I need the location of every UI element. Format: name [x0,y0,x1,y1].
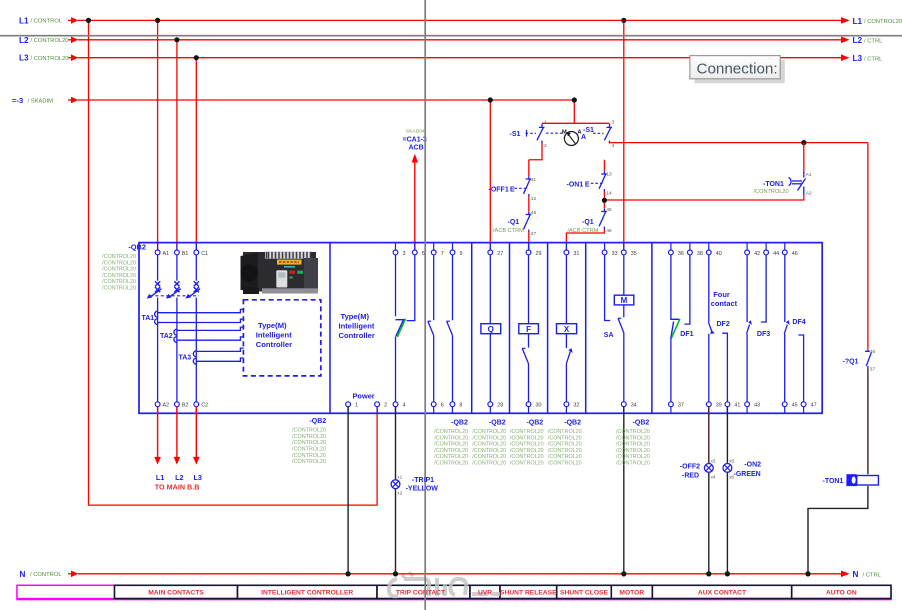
svg-text:MAIN CONTACTS: MAIN CONTACTS [148,590,204,597]
svg-text:C2: C2 [201,403,208,409]
svg-text:A1: A1 [163,251,170,257]
contact -Q1 left pins 46-47 [524,212,532,232]
wire S1 A-side output to right branch [610,142,868,145]
svg-text:/ CTRL: / CTRL [864,56,883,62]
svg-text:-GREEN: -GREEN [734,471,761,478]
svg-text:/ CONTROL: / CONTROL [31,19,63,25]
svg-text:INTELLIGENT CONTROLLER: INTELLIGENT CONTROLLER [261,590,353,597]
svg-text:Type(M): Type(M) [258,321,287,330]
lamp -ON2 -GREEN [723,464,732,473]
svg-text:-QB2: -QB2 [451,419,468,426]
svg-text:/ CTRL: / CTRL [863,572,882,578]
svg-text:SA: SA [604,332,614,339]
wire Q1 left to terminal 29 [528,232,530,250]
svg-text:45: 45 [792,403,798,409]
svg-text:47: 47 [531,231,537,237]
svg-text:/ACB CTRM: /ACB CTRM [493,228,524,234]
svg-text:Type(M): Type(M) [341,312,370,321]
svg-text:/CONTROL20: /CONTROL20 [616,454,650,460]
svg-text:Four: Four [713,290,730,299]
svg-text:DF4: DF4 [792,319,805,326]
svg-text:-QB2: -QB2 [564,419,581,426]
svg-text:/CONTROL20: /CONTROL20 [434,435,468,441]
svg-text:-?Q1: -?Q1 [843,359,859,366]
bus N / CONTROL [20,570,882,579]
terminal numbers bottom row [163,403,817,409]
svg-text:37: 37 [870,367,876,373]
svg-text:/CONTROL20: /CONTROL20 [292,428,326,434]
svg-text:/CONTROL20: /CONTROL20 [548,435,582,441]
node junction L1 x88.5 [86,18,91,23]
switch -S1 contact M-side pins 1-2 [537,124,545,144]
wire ON1 to Q1 right with junction [603,192,605,209]
svg-text:/CONTROL20: /CONTROL20 [434,454,468,460]
wire terminal 39 to OFF2 lamp and N [708,407,710,464]
wire terminal 41 to ON2 lamp and N [726,407,728,464]
svg-text:/CONTROL20: /CONTROL20 [434,429,468,435]
svg-text:13: 13 [606,172,612,178]
svg-text:36: 36 [678,251,684,257]
svg-text:36: 36 [870,349,876,355]
strip labels [148,590,857,597]
svg-text:/CONTROL20: /CONTROL20 [548,429,582,435]
svg-text:=CA1-3: =CA1-3 [403,137,427,144]
svg-text:/CONTROL20: /CONTROL20 [616,429,650,435]
aux contact DF1 with green state [670,255,672,319]
svg-text:/CONTROL20: /CONTROL20 [548,461,582,467]
svg-text:/CONTROL20: /CONTROL20 [434,461,468,467]
svg-text:42: 42 [754,251,760,257]
svg-text:/ CONTROL: / CONTROL [30,572,62,578]
svg-text:MOTOR: MOTOR [619,590,644,597]
svg-text:/CONTROL20: /CONTROL20 [472,461,506,467]
wire SKADIM drop to terminal 27 [489,100,491,250]
controller lead 5 with hook [407,255,415,321]
lamp -TRIP1 -YELLOW [391,480,400,489]
svg-text:-ON1: -ON1 [567,181,584,188]
CAD crosshair horizontal [0,35,902,37]
svg-text:L1: L1 [156,473,164,482]
svg-text:30: 30 [536,403,542,409]
svg-text:/CONTROL20: /CONTROL20 [472,435,506,441]
timer contact -TON1 delay symbol [846,474,856,486]
svg-text:/ CONTROL20: / CONTROL20 [31,56,69,62]
svg-text:28: 28 [497,403,503,409]
svg-text:7: 7 [441,251,444,257]
coil Q leads [489,255,491,324]
svg-text:/ SKADIM: / SKADIM [28,98,54,104]
contact below X with arrow [566,352,570,364]
svg-text:1: 1 [544,120,547,126]
svg-text:A1: A1 [806,172,812,178]
svg-text:-QB2: -QB2 [128,243,146,252]
wire arrows A2 B2 C2 to main busbar [158,407,197,458]
svg-text:/CONTROL20: /CONTROL20 [548,448,582,454]
svg-text:43: 43 [754,403,760,409]
svg-text:-Q1: -Q1 [508,219,520,226]
svg-text:34: 34 [631,403,637,409]
svg-text:1: 1 [355,403,358,409]
aux lead 41 with hook [722,333,727,402]
pushbutton -ON1 contact pins 13-14 [599,171,607,191]
svg-text:9: 9 [460,251,463,257]
svg-text:DF2: DF2 [717,321,730,328]
svg-text:Q: Q [488,325,494,334]
svg-text:31: 31 [573,251,579,257]
svg-text:/CONTROL20: /CONTROL20 [292,434,326,440]
wire L1 drop to terminal 35 [623,20,625,250]
svg-text:41: 41 [734,403,740,409]
svg-text:/CONTROL20: /CONTROL20 [510,448,544,454]
current transformer TA1 [155,311,158,324]
coil M box [614,295,634,305]
svg-text:/CONTROL20: /CONTROL20 [472,442,506,448]
selector lead SA 33 [605,255,611,321]
svg-text:L2: L2 [853,36,863,45]
node junction TON1 feed [801,140,806,145]
svg-text:contact: contact [711,299,738,308]
svg-text:DF1: DF1 [680,331,693,338]
svg-text:-OFF2: -OFF2 [680,464,700,471]
breaker linkage dashes and arrows [150,295,199,297]
wire red arrow to ACB reference at terminal 5 [414,162,416,250]
svg-text:-TRIP1: -TRIP1 [412,477,434,484]
bus L3 / CONTROL20 [19,54,883,63]
svg-text:/ CONTROL20: / CONTROL20 [864,19,902,25]
ACB product photo (simplified) [241,252,319,295]
svg-text:=-3: =-3 [12,96,23,105]
svg-text:/CONTROL20: /CONTROL20 [102,260,136,266]
svg-text:40: 40 [716,251,722,257]
svg-text:Intelligent: Intelligent [339,322,375,331]
aux contact DF2 [708,255,710,323]
wire L3 drop to C1 [195,58,197,250]
svg-text:39: 39 [716,403,722,409]
terminal stubs bottom [158,407,804,414]
coil Q box [481,324,501,334]
bus =-3 / SKADIM [12,96,574,105]
svg-text:-S1: -S1 [583,127,594,134]
svg-text:/CONTROL20: /CONTROL20 [754,189,789,195]
svg-text:TA2: TA2 [160,333,173,340]
svg-text:ACB: ACB [409,145,424,152]
wire L1 drop to A1 [157,20,159,250]
svg-text:A: A [581,134,586,141]
svg-text:N: N [853,570,859,579]
svg-text:L1: L1 [853,17,863,26]
wire OFF1 to Q1 [528,197,530,212]
svg-text:C1: C1 [201,251,208,257]
coil X leads [565,255,567,324]
svg-text:33: 33 [612,251,618,257]
svg-text:TRIP CONTACT: TRIP CONTACT [396,590,446,597]
svg-text:12: 12 [531,196,537,202]
svg-text:A2: A2 [806,191,812,197]
svg-text:3: 3 [403,251,406,257]
svg-text:/CONTROL20: /CONTROL20 [548,454,582,460]
svg-text:4: 4 [612,143,615,149]
switch -S1 contact A-side pins 3-4 [604,124,612,144]
coil F box [519,324,539,334]
svg-text:-TON1: -TON1 [823,478,844,485]
svg-text:X: X [564,325,570,334]
svg-text:/CONTROL20: /CONTROL20 [434,448,468,454]
wire S1 M-side to OFF1 branch [529,144,542,160]
svg-text:6: 6 [441,403,444,409]
svg-text:/CONTROL20: /CONTROL20 [616,435,650,441]
svg-text:L2: L2 [175,473,183,482]
CAD crosshair vertical [424,0,426,610]
junction dots on N redrawn [346,571,811,576]
wire TON1 coil feed [803,143,805,173]
aux lead 44 with hook [761,255,766,322]
svg-text:-S1: -S1 [510,131,521,138]
svg-text:-RED: -RED [682,473,699,480]
wire TON1 contact down to N [808,486,868,574]
watermark [389,572,500,596]
svg-text:35: 35 [631,251,637,257]
svg-text:/CONTROL20: /CONTROL20 [616,448,650,454]
svg-text:38: 38 [697,251,703,257]
current transformer TA2 [174,329,177,342]
wire terminal 34 down to N [623,407,625,574]
svg-text:37: 37 [678,403,684,409]
wire dark from ?Q1 down to TON1 contact [867,369,869,475]
svg-text:TA3: TA3 [179,355,192,362]
svg-text:-QB2: -QB2 [489,419,506,426]
svg-text:Intelligent: Intelligent [256,331,292,340]
aux contact DF3 [746,255,748,322]
svg-text:AUX CONTACT: AUX CONTACT [698,590,747,597]
svg-text:/CONTROL20: /CONTROL20 [548,442,582,448]
breaker unit -QB2 outer box [139,243,822,414]
svg-text:N: N [20,570,26,579]
svg-text:L2: L2 [19,36,29,45]
terminal stubs top [158,243,785,250]
svg-text:-YELLOW: -YELLOW [406,486,439,493]
svg-text:-ON2: -ON2 [744,462,761,469]
svg-text:46: 46 [792,251,798,257]
bus L1 / CONTROL [19,16,902,25]
svg-text:-QB2: -QB2 [633,419,650,426]
svg-text:11: 11 [531,177,536,183]
svg-text:L3: L3 [194,473,202,482]
svg-text:/ CTRL: / CTRL [864,38,883,44]
svg-text:/CONTROL20: /CONTROL20 [616,442,650,448]
svg-text:x1: x1 [397,475,402,480]
terminal circles bottom row [155,402,806,407]
svg-text:29: 29 [536,251,542,257]
wire Q1 right to terminal 31 [566,229,604,250]
svg-text:/CONTROL20: /CONTROL20 [472,454,506,460]
svg-text:32: 32 [573,403,579,409]
svg-text:8: 8 [459,403,462,409]
contact below F [522,347,525,349]
svg-text:TA1: TA1 [142,315,155,322]
/CONTROL20 references left column [102,254,136,292]
QB2 section dividers [330,243,652,414]
wire L2 drop to B1 [176,40,178,250]
svg-text:Controller: Controller [256,340,292,349]
wire left feeder rail from L1 down and along y505 to terminal 2 [89,20,378,505]
svg-text:47: 47 [811,403,817,409]
svg-text:/CONTROL20: /CONTROL20 [434,442,468,448]
svg-text:/CONTROL20: /CONTROL20 [510,442,544,448]
svg-text:AUTO ON: AUTO ON [826,590,857,597]
svg-text:/CONTROL20: /CONTROL20 [472,429,506,435]
wire SKADIM drop to S1 selector feed [573,100,575,123]
CT secondary wires to controller [158,309,244,361]
svg-text:/CONTROL20: /CONTROL20 [510,435,544,441]
svg-text:/CONTROL20: /CONTROL20 [102,273,136,279]
svg-text:45: 45 [606,207,612,213]
svg-text:46: 46 [531,210,537,216]
controller contact 9-8 [452,255,454,320]
svg-text:3: 3 [612,120,615,126]
contact below M to 34 [623,305,625,317]
controller dashed box [243,300,320,376]
svg-text:/CONTROL20: /CONTROL20 [102,286,136,292]
svg-text:UVR: UVR [478,590,492,597]
svg-text:Controller: Controller [339,331,375,340]
pushbutton -OFF1 contact pins 11-12 [524,176,532,196]
svg-text:/CONTROL20: /CONTROL20 [102,254,136,260]
svg-text:4: 4 [403,403,406,409]
svg-text:DF3: DF3 [757,331,770,338]
controller contact 7-6 [433,255,435,320]
svg-text:L1: L1 [19,16,29,25]
wire terminal 1 down to N [347,407,349,574]
svg-text:2: 2 [384,403,387,409]
wire ON1 branch vertical [603,160,605,171]
svg-text:/CONTROL20: /CONTROL20 [102,267,136,273]
breaker main contact symbols (x marks and blades) [149,281,200,297]
strip cell magenta empty [17,585,115,598]
svg-text:/CONTROL20: /CONTROL20 [510,461,544,467]
svg-text:Power: Power [353,392,375,401]
motor coil M lead [623,255,625,295]
svg-text:/CONTROL20: /CONTROL20 [510,429,544,435]
rotary selector dial M/A [564,132,578,146]
bus L2 / CONTROL20 [19,36,883,45]
lamp -OFF2 -RED [704,464,713,473]
contact -?Q1 pins 36-37 [865,349,871,368]
svg-text:SHUNT CLOSE: SHUNT CLOSE [560,590,608,597]
svg-text:14: 14 [606,191,612,197]
svg-text:B1: B1 [182,251,189,257]
svg-text:/CONTROL20: /CONTROL20 [510,454,544,460]
terminal numbers top row [163,251,798,257]
svg-text:SHUNT RELEASE: SHUNT RELEASE [500,590,557,597]
svg-text:/CONTROL20: /CONTROL20 [102,279,136,285]
svg-text:27: 27 [497,251,503,257]
svg-text:SKAD04: SKAD04 [406,128,425,134]
bottom function strip magenta frame [17,585,891,599]
controller status contact 3-4 with green state [395,255,397,316]
svg-text:-OFF1: -OFF1 [489,187,509,194]
svg-text:x3: x3 [711,458,716,463]
svg-text:x2: x2 [397,491,402,496]
svg-text:/ CONTROL20: / CONTROL20 [31,38,69,44]
coil F leads [528,255,530,324]
svg-text:-QB2: -QB2 [526,419,543,426]
svg-text:-Q1: -Q1 [582,219,594,226]
svg-text:/CONTROL20: /CONTROL20 [292,440,326,446]
svg-text:/CONTROL20: /CONTROL20 [616,461,650,467]
svg-text:E: E [510,187,515,194]
svg-text:-QB2: -QB2 [309,418,326,425]
wire TON1 A2 to ON1 junction [604,195,803,200]
svg-text:46: 46 [606,228,612,234]
wire terminal 4 to TRIP1 lamp and N [395,407,397,480]
svg-text:2: 2 [544,143,547,149]
svg-text:M: M [621,296,628,305]
strip cells [115,585,892,598]
aux contact DF4 [784,255,786,322]
svg-text:/CONTROL20: /CONTROL20 [292,453,326,459]
aux lead 38 with hook [685,255,690,324]
svg-text:B2: B2 [182,403,189,409]
svg-text:/CONTROL20: /CONTROL20 [292,447,326,453]
coil X box [557,324,577,334]
current transformer TA3 [193,351,196,364]
aux lead 47 with hook [798,335,803,402]
svg-text:TO MAIN B.B: TO MAIN B.B [155,482,200,491]
wire down to Q1 aux contact [867,143,869,350]
wire OFF1 branch verticals [528,160,530,177]
relay coil -TON1 pins A1 A2 [789,172,806,195]
svg-text:x4: x4 [711,474,716,479]
terminal circles top row [155,250,787,255]
svg-text:Connection:: Connection: [697,61,778,78]
svg-text:L3: L3 [19,54,29,63]
svg-text:M: M [562,129,567,135]
svg-text:5: 5 [422,251,425,257]
svg-text:x5: x5 [729,458,734,463]
wire S1 feed horizontal [542,122,610,124]
svg-text:F: F [526,325,531,334]
contact -Q1 right pins 45-46 [599,209,607,229]
svg-text:/CONTROL20: /CONTROL20 [472,448,506,454]
pole A internal lead [158,255,197,402]
svg-text:-TON1: -TON1 [763,181,784,188]
svg-text:44: 44 [773,251,779,257]
svg-text:L3: L3 [853,54,863,63]
svg-text:A2: A2 [163,403,170,409]
svg-text:/CONTROL20: /CONTROL20 [292,459,326,465]
svg-text:E: E [585,181,590,188]
